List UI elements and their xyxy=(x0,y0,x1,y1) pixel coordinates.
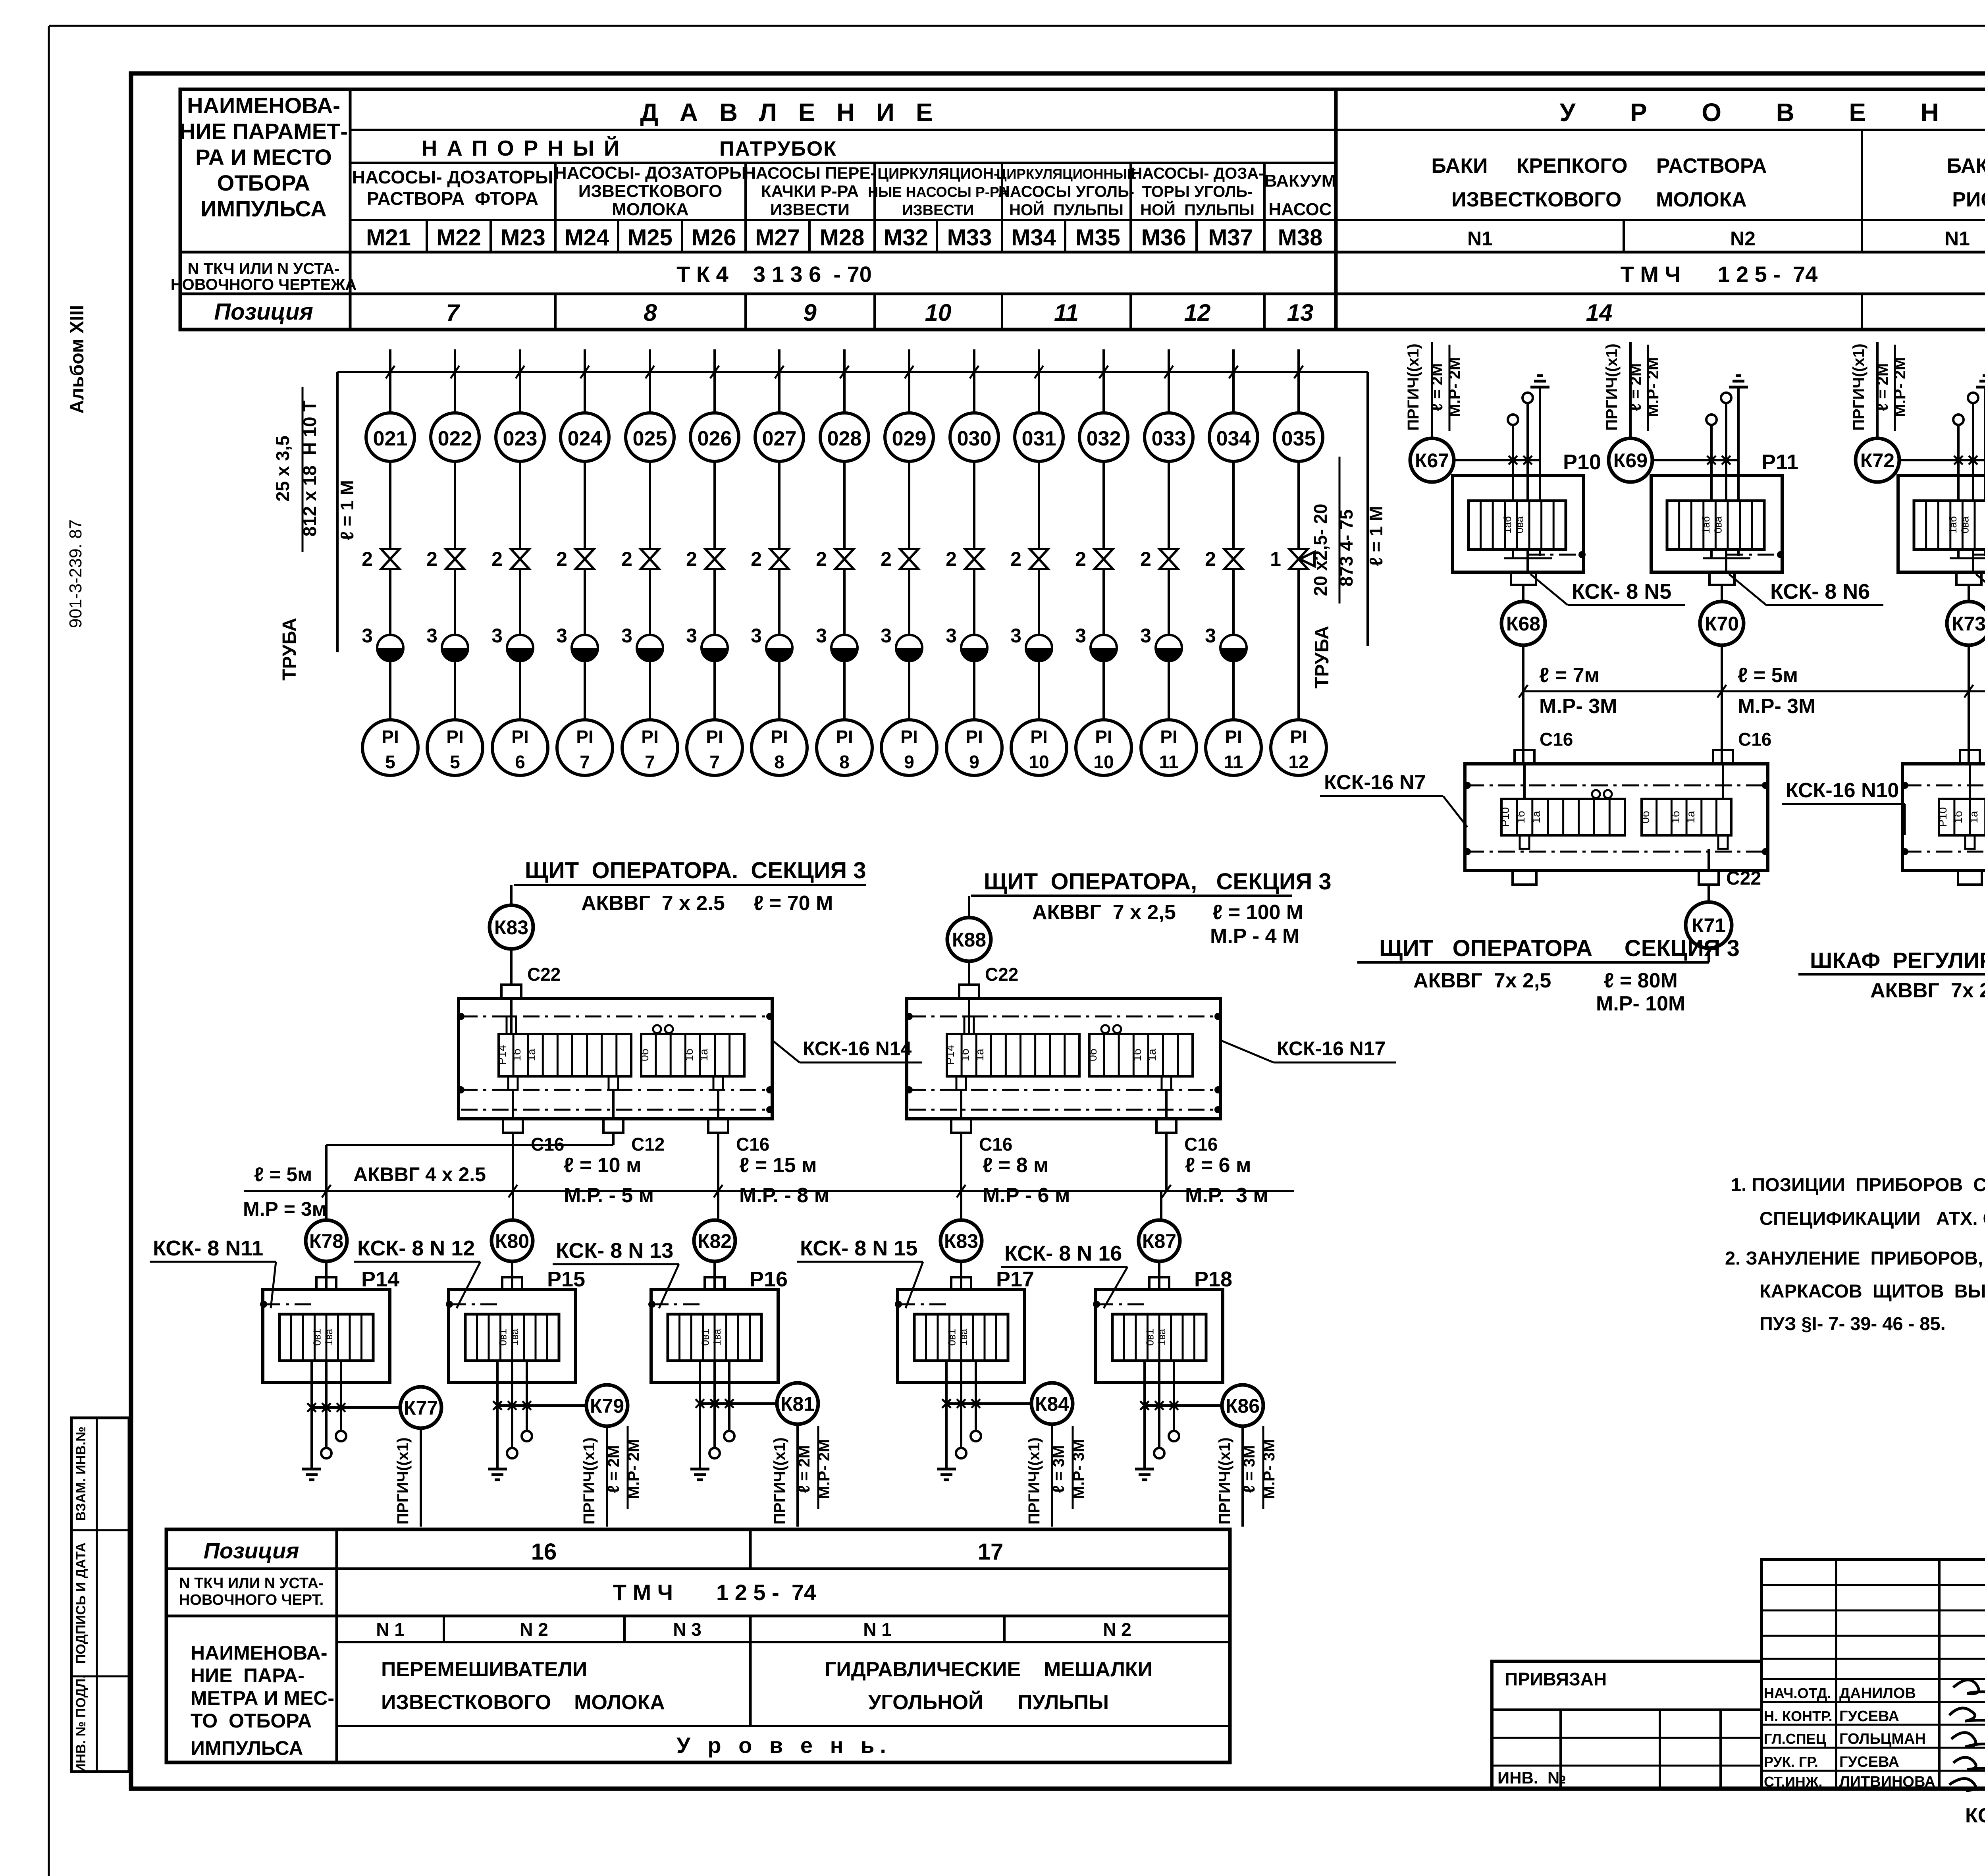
tap circle 025 xyxy=(626,413,674,461)
svg-text:УГОЛЬНОЙ ПУЛЬПЫ: УГОЛЬНОЙ ПУЛЬПЫ xyxy=(868,1691,1109,1714)
svg-text:С22: С22 xyxy=(1726,868,1761,889)
svg-text:АКВВГ 4 х 2.5: АКВВГ 4 х 2.5 xyxy=(353,1163,486,1186)
tap circle 030 xyxy=(950,413,998,461)
upper parameter table frame xyxy=(180,89,1336,330)
wires into box Р10 xyxy=(1512,424,1514,501)
svg-text:1а: 1а xyxy=(1684,811,1697,823)
junction circle К80 xyxy=(491,1220,533,1261)
svg-text:ℓ = 5м: ℓ = 5м xyxy=(1738,664,1798,687)
svg-text:Р14: Р14 xyxy=(944,1045,956,1065)
junction circle К71 xyxy=(1686,902,1732,948)
wire to junction circle К84 xyxy=(946,1402,1031,1405)
svg-text:8: 8 xyxy=(839,752,850,772)
table column lines xyxy=(349,89,352,330)
terminal box Р10 (КСК- 8 N5) xyxy=(1453,476,1584,572)
box outlet tab Р10 xyxy=(1511,572,1536,585)
svg-text:БАКИ КРЕМНЕФТО-: БАКИ КРЕМНЕФТО- xyxy=(1947,154,1985,177)
cable К88 to operator panel xyxy=(968,896,970,918)
ground symbol below Р18 xyxy=(1135,1468,1154,1471)
svg-text:М28: М28 xyxy=(820,225,865,251)
svg-text:НИЕ ПАРА-: НИЕ ПАРА- xyxy=(191,1664,304,1687)
svg-text:0ва: 0ва xyxy=(1959,516,1971,533)
svg-text:0ва: 0ва xyxy=(1712,516,1724,533)
svg-text:ЩИТ ОПЕРАТОРА, СЕКЦИЯ 3: ЩИТ ОПЕРАТОРА, СЕКЦИЯ 3 xyxy=(984,869,1332,895)
svg-text:N ТКЧ ИЛИ N УСТА-: N ТКЧ ИЛИ N УСТА- xyxy=(179,1575,324,1592)
svg-text:1ва: 1ва xyxy=(711,1328,723,1346)
svg-text:2: 2 xyxy=(621,548,632,570)
table row lines xyxy=(350,129,1336,131)
svg-text:М36: М36 xyxy=(1141,225,1186,251)
ground symbol below Р17 xyxy=(937,1468,956,1471)
svg-text:10: 10 xyxy=(925,299,952,326)
screen dash-dot lines КСК-16 N7 xyxy=(1467,785,1765,787)
svg-text:ℓ = 2М: ℓ = 2М xyxy=(1627,363,1644,411)
impulse line column 030 xyxy=(973,349,975,413)
screen dash-dot inside Р11 xyxy=(1727,554,1781,556)
svg-text:К80: К80 xyxy=(495,1230,529,1252)
svg-text:КСК-16 N14: КСК-16 N14 xyxy=(803,1037,912,1060)
lower table lines xyxy=(166,1568,1230,1570)
svg-text:М35: М35 xyxy=(1075,225,1120,251)
svg-text:25 х 3,5: 25 х 3,5 xyxy=(272,436,293,501)
svg-text:7: 7 xyxy=(645,752,655,772)
cable up from К67 xyxy=(1431,342,1433,438)
inlet tab Р16 xyxy=(705,1277,725,1290)
terminal box Р17 (КСК- 8 N 15) xyxy=(898,1290,1025,1382)
svg-text:ЛИТВИНОВА: ЛИТВИНОВА xyxy=(1839,1774,1935,1790)
box outlet tab Р12 xyxy=(1956,572,1981,585)
svg-text:1аб: 1аб xyxy=(1700,516,1712,534)
junction circle К87 xyxy=(1139,1220,1180,1261)
title block signature grid xyxy=(1761,1560,1985,1789)
svg-text:2: 2 xyxy=(426,548,437,570)
svg-text:Альбом ХIII: Альбом ХIII xyxy=(67,305,88,414)
svg-text:К81: К81 xyxy=(781,1393,815,1415)
svg-text:М.Р- 2М: М.Р- 2М xyxy=(815,1439,833,1499)
terminal box Р11 (КСК- 8 N6) xyxy=(1651,476,1782,572)
svg-text:PI: PI xyxy=(446,727,463,747)
junction box КСК-16 N17 xyxy=(907,999,1220,1119)
svg-text:ЩИТ ОПЕРАТОРА СЕКЦИЯ 3: ЩИТ ОПЕРАТОРА СЕКЦИЯ 3 xyxy=(1379,935,1740,961)
svg-text:ℓ = 2М: ℓ = 2М xyxy=(1874,363,1891,411)
svg-text:Т М Ч 1 2 5 - 74: Т М Ч 1 2 5 - 74 xyxy=(613,1580,816,1605)
svg-text:К83: К83 xyxy=(944,1230,978,1252)
svg-text:1: 1 xyxy=(1270,548,1281,570)
svg-text:ИНВ. №: ИНВ. № xyxy=(1497,1768,1566,1787)
junction circle К69 xyxy=(1609,438,1652,482)
svg-text:ПРГИЧ((х1): ПРГИЧ((х1) xyxy=(394,1437,412,1524)
svg-text:К77: К77 xyxy=(404,1397,438,1419)
chassis ground above Р10 xyxy=(1530,386,1549,389)
svg-text:ПРГИЧ((х1): ПРГИЧ((х1) xyxy=(1850,343,1867,430)
svg-text:ПОДПИСЬ И ДАТА: ПОДПИСЬ И ДАТА xyxy=(73,1542,89,1664)
svg-text:0в1: 0в1 xyxy=(311,1329,323,1346)
svg-text:К78: К78 xyxy=(309,1230,343,1252)
wire into КСК-16 N10 xyxy=(1969,764,1971,799)
terminal box Р14 (КСК- 8 N11) xyxy=(263,1290,390,1382)
svg-text:5: 5 xyxy=(385,752,395,772)
svg-text:НАСОСЫ- ДОЗАТОРЫ: НАСОСЫ- ДОЗАТОРЫ xyxy=(352,167,553,187)
svg-text:N2: N2 xyxy=(1730,228,1756,250)
junction circle К73 xyxy=(1947,602,1985,645)
svg-text:АКВВГ 7х 2,5: АКВВГ 7х 2,5 xyxy=(1870,979,1985,1002)
wires below box Р18 xyxy=(1143,1361,1146,1382)
svg-text:КСК-16 N17: КСК-16 N17 xyxy=(1277,1037,1386,1060)
svg-text:1аб: 1аб xyxy=(1501,516,1513,534)
wires below box Р17 xyxy=(945,1361,948,1382)
impulse line column 033 xyxy=(1168,349,1170,413)
svg-text:2: 2 xyxy=(686,548,697,570)
impulse header line xyxy=(337,371,1368,373)
screen dash-dot Р16 xyxy=(648,1301,655,1308)
svg-text:К68: К68 xyxy=(1506,613,1540,635)
svg-text:N1: N1 xyxy=(1467,228,1493,250)
svg-text:PI: PI xyxy=(1290,727,1307,747)
svg-text:032: 032 xyxy=(1087,427,1121,450)
drop from N17 С16 to К83 xyxy=(960,1133,962,1220)
svg-text:К87: К87 xyxy=(1142,1230,1176,1252)
svg-text:1а: 1а xyxy=(1146,1049,1158,1061)
inlet tab C16 xyxy=(1960,750,1980,764)
cable up from К72 xyxy=(1876,342,1879,438)
signatures scribbles xyxy=(1953,1680,1985,1695)
svg-text:034: 034 xyxy=(1216,427,1251,450)
svg-text:НАСОСЫ УГОЛЬ-: НАСОСЫ УГОЛЬ- xyxy=(998,183,1134,201)
svg-text:2. ЗАНУЛЕНИЕ ПРИБОРОВ, СОЕДИН: 2. ЗАНУЛЕНИЕ ПРИБОРОВ, СОЕДИНИТЕЛЬНЫХ КО… xyxy=(1725,1247,1985,1269)
svg-text:Т К 4 3 1 3 6 - 70: Т К 4 3 1 3 6 - 70 xyxy=(676,262,872,287)
wire К67 to box Р10 xyxy=(1454,459,1540,461)
pressure gauge PI 10 xyxy=(1076,720,1131,775)
svg-text:НАЧ.ОТД.: НАЧ.ОТД. xyxy=(1764,1685,1831,1701)
svg-text:2: 2 xyxy=(556,548,567,570)
svg-text:N 2: N 2 xyxy=(1103,1619,1131,1640)
svg-text:НАПОРНЫЙ: НАПОРНЫЙ xyxy=(422,135,629,160)
svg-text:К70: К70 xyxy=(1705,613,1739,635)
svg-text:ИНВ. № ПОДЛ.: ИНВ. № ПОДЛ. xyxy=(73,1675,89,1773)
svg-text:PI: PI xyxy=(1225,727,1242,747)
junction circle К86 xyxy=(1222,1385,1263,1426)
svg-text:К84: К84 xyxy=(1035,1393,1069,1415)
junction circle К83 (panel cable) xyxy=(490,905,533,949)
junction circle К84 xyxy=(1031,1383,1073,1424)
svg-text:М.Р- 3М: М.Р- 3М xyxy=(1260,1439,1278,1499)
svg-text:PI: PI xyxy=(900,727,917,747)
inlet tab Р18 xyxy=(1149,1277,1169,1290)
svg-text:У Р О В Е Н Ь: У Р О В Е Н Ь xyxy=(1560,98,1985,127)
svg-text:1б: 1б xyxy=(1669,811,1682,823)
pressure gauge PI 5 xyxy=(362,720,418,775)
svg-text:ℓ = 2М: ℓ = 2М xyxy=(796,1445,813,1493)
svg-text:ИМПУЛЬСА: ИМПУЛЬСА xyxy=(191,1737,303,1759)
svg-text:М22: М22 xyxy=(436,225,481,251)
svg-text:9: 9 xyxy=(969,752,979,772)
svg-text:ТРУБА: ТРУБА xyxy=(279,618,300,681)
wire to junction circle К77 xyxy=(312,1406,400,1409)
impulse line column 026 xyxy=(713,349,716,413)
tap circle 027 xyxy=(755,413,804,461)
svg-text:028: 028 xyxy=(827,427,862,450)
svg-text:С22: С22 xyxy=(985,964,1018,985)
svg-text:13: 13 xyxy=(1287,299,1314,326)
svg-text:ЩИТ ОПЕРАТОРА. СЕКЦИЯ 3: ЩИТ ОПЕРАТОРА. СЕКЦИЯ 3 xyxy=(525,858,866,883)
chassis ground above Р11 xyxy=(1729,386,1748,389)
tap circle 026 xyxy=(690,413,739,461)
svg-text:ГУСЕВА: ГУСЕВА xyxy=(1839,1708,1899,1725)
svg-text:PI: PI xyxy=(771,727,788,747)
svg-text:С16: С16 xyxy=(979,1134,1012,1155)
svg-text:Позиция: Позиция xyxy=(204,1538,299,1563)
pressure gauge PI 9 xyxy=(946,720,1002,775)
svg-text:1б: 1б xyxy=(1131,1049,1143,1061)
svg-text:16: 16 xyxy=(531,1539,557,1565)
svg-text:ПРГИЧ((х1): ПРГИЧ((х1) xyxy=(1603,343,1621,430)
outlet tab С16 xyxy=(512,1090,514,1119)
screen dash-dot inside Р10 xyxy=(1528,554,1582,556)
tap circle 035 xyxy=(1274,413,1323,461)
svg-text:ПРГИЧ((х1): ПРГИЧ((х1) xyxy=(1025,1437,1043,1524)
chassis ground above Р12 xyxy=(1976,386,1985,389)
pressure gauge PI 12 xyxy=(1271,720,1326,775)
cable from С12 to К78 (L-shape) xyxy=(612,1133,615,1145)
tap circle 034 xyxy=(1209,413,1258,461)
svg-text:ИЗВЕСТИ: ИЗВЕСТИ xyxy=(902,202,974,219)
svg-text:0ва: 0ва xyxy=(1514,516,1526,533)
svg-text:М.Р - 6 м: М.Р - 6 м xyxy=(983,1184,1070,1207)
screen dash-dot inside Р12 xyxy=(1973,554,1985,556)
svg-text:МОЛОКА: МОЛОКА xyxy=(612,200,689,219)
svg-text:PI: PI xyxy=(966,727,983,747)
svg-text:5: 5 xyxy=(450,752,460,772)
svg-text:PI: PI xyxy=(1160,727,1177,747)
outlet tab С16 xyxy=(960,1090,962,1119)
junction circle К77 xyxy=(400,1387,441,1428)
svg-text:1аб: 1аб xyxy=(1947,516,1959,534)
svg-text:14: 14 xyxy=(1586,299,1613,326)
svg-text:1а: 1а xyxy=(973,1049,986,1061)
svg-text:КАРКАСОВ ЩИТОВ ВЫПОЛНИТЬ СО: КАРКАСОВ ЩИТОВ ВЫПОЛНИТЬ СОГЛАСНО xyxy=(1760,1280,1985,1301)
junction circle К72 xyxy=(1856,438,1899,482)
screen dash-dot Р17 xyxy=(895,1301,902,1308)
svg-text:1а: 1а xyxy=(1530,811,1542,823)
tap circle 033 xyxy=(1145,413,1193,461)
inlet tab Р15 xyxy=(502,1277,522,1290)
svg-text:PI: PI xyxy=(836,727,853,747)
svg-text:N 1: N 1 xyxy=(863,1619,892,1640)
pressure gauge PI 7 xyxy=(557,720,613,775)
impulse line column 035 xyxy=(1297,349,1300,413)
svg-text:Р18: Р18 xyxy=(1194,1267,1232,1291)
svg-text:М33: М33 xyxy=(947,225,992,251)
svg-text:0в1: 0в1 xyxy=(946,1329,958,1346)
left pipe line xyxy=(336,372,339,652)
svg-text:9: 9 xyxy=(904,752,914,772)
svg-text:2: 2 xyxy=(1010,548,1021,570)
svg-text:030: 030 xyxy=(957,427,992,450)
svg-text:М37: М37 xyxy=(1208,225,1253,251)
tap circle 024 xyxy=(561,413,609,461)
svg-text:ТОРЫ УГОЛЬ-: ТОРЫ УГОЛЬ- xyxy=(1142,183,1253,201)
wire К83 down to КСК-16 N14 xyxy=(510,949,513,985)
svg-text:ℓ = 1 М: ℓ = 1 М xyxy=(337,480,357,540)
cable bus АКВВГ 4х2,5 upper xyxy=(1523,690,1985,692)
svg-text:7: 7 xyxy=(580,752,590,772)
svg-text:ℓ = 3М: ℓ = 3М xyxy=(1050,1445,1068,1493)
svg-text:КСК- 8 N 13: КСК- 8 N 13 xyxy=(556,1239,673,1263)
svg-text:3: 3 xyxy=(362,625,373,647)
svg-text:ℓ = 1 М: ℓ = 1 М xyxy=(1366,506,1386,566)
svg-text:7: 7 xyxy=(709,752,720,772)
terminal box Р18 (КСК- 8 N 16) xyxy=(1096,1290,1223,1382)
svg-text:Р17: Р17 xyxy=(996,1267,1034,1291)
cable К68 down to junction box xyxy=(1522,644,1524,764)
svg-text:М.Р- 10М: М.Р- 10М xyxy=(1596,992,1685,1015)
svg-text:ДАНИЛОВ: ДАНИЛОВ xyxy=(1839,1685,1916,1702)
svg-text:3: 3 xyxy=(751,625,762,647)
title block stamp xyxy=(1492,1661,1761,1789)
svg-text:ℓ = 10 м: ℓ = 10 м xyxy=(564,1154,641,1177)
svg-text:ГЛ.СПЕЦ: ГЛ.СПЕЦ xyxy=(1764,1731,1827,1747)
svg-text:Т М Ч 1 2 5 - 74: Т М Ч 1 2 5 - 74 xyxy=(1621,262,1818,287)
cable К70 down to junction box xyxy=(1721,644,1723,764)
svg-text:ПРГИЧ((х1): ПРГИЧ((х1) xyxy=(1405,343,1422,430)
svg-text:ПРГИЧ((х1): ПРГИЧ((х1) xyxy=(771,1437,788,1524)
svg-text:НАСОСЫ ПЕРЕ-: НАСОСЫ ПЕРЕ- xyxy=(744,164,876,182)
svg-text:К79: К79 xyxy=(590,1395,624,1417)
cable marking below К84 xyxy=(1051,1424,1053,1527)
svg-text:ИЗВЕСТКОВОГО МОЛОКА: ИЗВЕСТКОВОГО МОЛОКА xyxy=(381,1691,665,1714)
screen dash-dot Р18 xyxy=(1093,1301,1100,1308)
svg-text:0в1: 0в1 xyxy=(699,1329,711,1346)
svg-text:8: 8 xyxy=(644,299,657,326)
junction circle К68 xyxy=(1501,602,1545,645)
impulse line column 027 xyxy=(778,349,781,413)
wire К83 to box Р17 xyxy=(960,1261,962,1290)
svg-text:ГУСЕВА: ГУСЕВА xyxy=(1839,1754,1899,1770)
svg-text:ОТБОРА: ОТБОРА xyxy=(217,170,310,195)
wires into box Р12 xyxy=(1957,424,1960,501)
svg-text:НАИМЕНОВА-: НАИМЕНОВА- xyxy=(191,1642,328,1664)
svg-text:873 4- 75: 873 4- 75 xyxy=(1336,509,1357,586)
ground symbol below Р16 xyxy=(690,1468,709,1471)
wire stubs below strip Р11 xyxy=(1710,549,1713,557)
svg-text:3: 3 xyxy=(1205,625,1216,647)
junction box КСК-16 N7 xyxy=(1465,764,1768,871)
junction circle К67 xyxy=(1410,438,1454,482)
svg-text:ТО ОТБОРА: ТО ОТБОРА xyxy=(191,1710,312,1732)
impulse line column 029 xyxy=(908,349,910,413)
svg-text:2: 2 xyxy=(816,548,827,570)
svg-text:С16: С16 xyxy=(1184,1134,1218,1155)
svg-text:1б: 1б xyxy=(959,1049,971,1061)
screen dash-dot lines КСК-16 N17 xyxy=(909,1016,1218,1018)
svg-text:12: 12 xyxy=(1184,299,1211,326)
drop from N14 С16 to К80 xyxy=(512,1133,514,1220)
svg-text:Н. КОНТР.: Н. КОНТР. xyxy=(1764,1708,1833,1724)
screen dash-dot Р14 xyxy=(260,1301,267,1308)
svg-text:031: 031 xyxy=(1022,427,1056,450)
svg-text:1а: 1а xyxy=(698,1049,710,1061)
svg-text:PI: PI xyxy=(706,727,723,747)
wire К88 down to КСК-16 N17 xyxy=(968,961,970,985)
svg-text:М32: М32 xyxy=(883,225,928,251)
impulse line column 023 xyxy=(519,349,521,413)
svg-text:3: 3 xyxy=(881,625,892,647)
svg-text:К83: К83 xyxy=(494,916,528,939)
ground symbol below Р15 xyxy=(488,1468,507,1471)
junction box КСК-16 N14 xyxy=(459,999,772,1119)
svg-text:10: 10 xyxy=(1093,752,1114,772)
svg-text:КСК- 8 N11: КСК- 8 N11 xyxy=(153,1236,263,1260)
svg-text:ПАТРУБОК: ПАТРУБОК xyxy=(719,137,837,160)
svg-text:АКВВГ 7 х 2.5 ℓ = 70 М: АКВВГ 7 х 2.5 ℓ = 70 М xyxy=(581,892,833,915)
svg-text:Р11: Р11 xyxy=(1761,450,1798,474)
svg-text:1б: 1б xyxy=(683,1049,695,1061)
svg-text:1б: 1б xyxy=(511,1049,523,1061)
cable bus АКВВГ 4х2,5 lower xyxy=(244,1190,1294,1192)
svg-text:11: 11 xyxy=(1159,752,1179,772)
svg-text:К67: К67 xyxy=(1415,449,1449,472)
svg-text:11: 11 xyxy=(1224,752,1243,772)
impulse line column 021 xyxy=(389,349,391,413)
screen dash-dot lines КСК-16 N14 xyxy=(461,1016,770,1018)
svg-text:7: 7 xyxy=(446,299,460,326)
svg-text:PI: PI xyxy=(511,727,528,747)
svg-text:КСК- 8 N6: КСК- 8 N6 xyxy=(1770,580,1870,603)
svg-text:К69: К69 xyxy=(1613,449,1648,472)
svg-text:М24: М24 xyxy=(565,225,609,251)
wire К72 to box Р12 xyxy=(1899,459,1985,461)
svg-text:ПУЗ §I- 7- 39- 46 - 85.: ПУЗ §I- 7- 39- 46 - 85. xyxy=(1760,1313,1946,1334)
svg-text:ℓ = 7м: ℓ = 7м xyxy=(1539,664,1600,687)
drop from N14 С16 right to К82 xyxy=(717,1133,719,1220)
svg-text:СПЕЦИФИКАЦИИ АТХ. С01 АЛЬБ: СПЕЦИФИКАЦИИ АТХ. С01 АЛЬБОМ ХVII xyxy=(1760,1208,1985,1229)
svg-text:Р14: Р14 xyxy=(361,1267,399,1291)
inlet tab C22 КСК-16 N17 xyxy=(959,985,979,999)
svg-text:НАСОС: НАСОС xyxy=(1268,200,1332,219)
svg-text:3: 3 xyxy=(1140,625,1151,647)
svg-text:ℓ = 8 м: ℓ = 8 м xyxy=(983,1154,1049,1177)
pressure gauge PI 9 xyxy=(881,720,937,775)
svg-text:М.Р. 3 м: М.Р. 3 м xyxy=(1185,1184,1268,1207)
svg-text:С16: С16 xyxy=(1738,729,1771,750)
svg-text:812 х 18 Н 10 Т: 812 х 18 Н 10 Т xyxy=(299,401,320,537)
svg-text:ℓ = 5м: ℓ = 5м xyxy=(254,1163,312,1186)
svg-text:РА И МЕСТО: РА И МЕСТО xyxy=(195,145,332,170)
svg-text:М.Р. - 5 м: М.Р. - 5 м xyxy=(564,1184,654,1207)
svg-text:N ТКЧ ИЛИ N УСТА-: N ТКЧ ИЛИ N УСТА- xyxy=(188,260,340,278)
svg-text:М23: М23 xyxy=(501,225,545,251)
svg-text:М25: М25 xyxy=(628,225,673,251)
svg-text:РАСТВОРА ФТОРА: РАСТВОРА ФТОРА xyxy=(367,188,538,209)
svg-text:3: 3 xyxy=(816,625,827,647)
terminal strips КСК-16 N14 xyxy=(499,1034,631,1076)
impulse line column 032 xyxy=(1102,349,1105,413)
terminal strips КСК-16 N7 xyxy=(1501,799,1625,835)
svg-text:2: 2 xyxy=(946,548,957,570)
tap circle 029 xyxy=(885,413,933,461)
svg-text:Р15: Р15 xyxy=(547,1267,585,1291)
wire into КСК-16 N7 xyxy=(1722,764,1724,799)
svg-text:0в1: 0в1 xyxy=(497,1329,509,1346)
svg-text:0в1: 0в1 xyxy=(1144,1329,1156,1346)
impulse line column 022 xyxy=(454,349,456,413)
svg-text:026: 026 xyxy=(698,427,732,450)
svg-text:1б: 1б xyxy=(1952,811,1964,823)
svg-text:023: 023 xyxy=(503,427,538,450)
svg-text:КОПИРОВАЛ: ХЮППЕНЕН: КОПИРОВАЛ: ХЮППЕНЕН xyxy=(1965,1804,1985,1827)
impulse line column 024 xyxy=(584,349,586,413)
svg-text:ИМПУЛЬСА: ИМПУЛЬСА xyxy=(200,196,327,221)
